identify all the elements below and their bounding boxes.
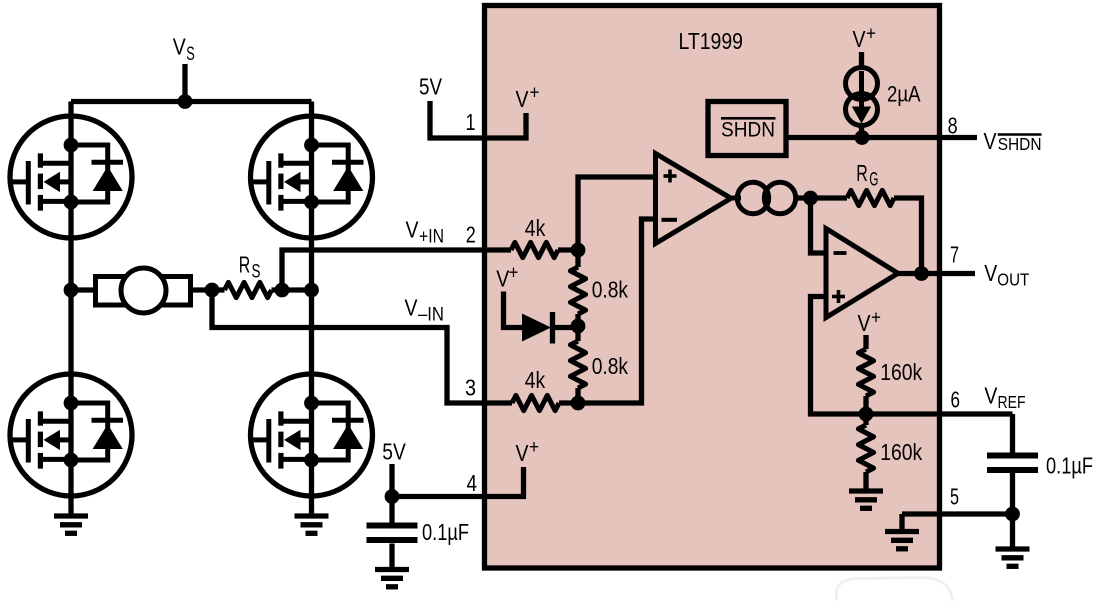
svg-text:R: R — [239, 252, 251, 278]
label V+ pin1 — [516, 82, 540, 112]
wire left column — [68, 102, 73, 517]
svg-text:0.1µF: 0.1µF — [422, 519, 469, 545]
wire VS stub — [182, 64, 187, 102]
wire + input of A1 — [578, 177, 656, 250]
label RG — [856, 160, 878, 191]
resistor 160k lower — [858, 414, 873, 491]
label VOUT — [984, 260, 1029, 290]
resistor 160k upper — [858, 335, 873, 414]
ground inside pin5 — [885, 532, 919, 549]
resistor 0.8k upper — [570, 250, 585, 326]
transistor M2 top-right — [251, 114, 373, 240]
junction pin2 node — [571, 243, 586, 258]
wire mirror to RG — [796, 195, 847, 200]
svg-text:4k: 4k — [525, 215, 546, 241]
minus sign A1 — [662, 218, 678, 222]
wire - input of A1 — [578, 219, 656, 403]
wire capacitor to pin5 node — [1010, 473, 1015, 515]
wire inside ground stub — [899, 514, 904, 532]
svg-text:+: + — [871, 307, 881, 328]
SHDN block — [708, 102, 786, 156]
svg-text:LT1999: LT1999 — [679, 28, 744, 54]
svg-text:1: 1 — [466, 109, 476, 135]
wire SHDN to pin 8 — [786, 135, 977, 140]
wire right column — [309, 102, 314, 517]
junction V+IN tap — [275, 283, 290, 298]
IC body LT1999 shaded box — [485, 6, 940, 569]
junction RS right column — [304, 283, 319, 298]
node VS label — [173, 34, 195, 66]
wire A2 output pin 7 — [898, 271, 975, 276]
diode D1 — [522, 312, 578, 344]
svg-text:V: V — [984, 383, 997, 409]
plus sign A1 — [664, 170, 677, 183]
svg-text:G: G — [869, 170, 878, 191]
svg-text:160k: 160k — [880, 439, 922, 465]
label V+IN — [406, 216, 445, 247]
transistor M4 bottom-right — [251, 372, 373, 498]
wire RG to output — [894, 198, 922, 274]
label V+ diode — [496, 262, 518, 291]
wire 5V to pin 1 — [430, 101, 526, 138]
svg-text:3: 3 — [465, 374, 476, 400]
svg-text:SHDN: SHDN — [998, 134, 1042, 154]
junction motor left — [64, 283, 79, 298]
label V+ 160k — [858, 307, 882, 336]
wire top rail — [71, 99, 312, 104]
svg-text:7: 7 — [950, 242, 959, 268]
svg-text:V: V — [984, 128, 997, 154]
junction VS — [178, 94, 193, 109]
svg-text:V: V — [853, 26, 866, 52]
label VREF — [984, 383, 1025, 413]
svg-text:0.1µF: 0.1µF — [1046, 453, 1093, 479]
svg-text:–IN: –IN — [418, 305, 444, 326]
current source 2uA — [846, 52, 878, 138]
svg-text:2: 2 — [466, 222, 476, 248]
svg-text:8: 8 — [948, 112, 958, 138]
svg-text:6: 6 — [951, 387, 961, 413]
transistor M3 bottom-left — [10, 372, 132, 498]
junction pin3 node — [571, 396, 586, 411]
svg-text:V: V — [516, 440, 529, 466]
svg-text:5V: 5V — [382, 439, 406, 465]
op-amp A1 input stage triangle — [656, 154, 732, 244]
watermark faint arcs — [836, 578, 952, 601]
svg-text:0.8k: 0.8k — [592, 353, 629, 379]
svg-text:S: S — [186, 44, 195, 65]
svg-text:+IN: +IN — [419, 226, 444, 247]
svg-text:5V: 5V — [419, 74, 442, 100]
label V-IN — [405, 295, 445, 326]
wire pin 5 — [902, 511, 1013, 516]
svg-text:V: V — [858, 310, 871, 336]
junction shdn node — [855, 130, 870, 145]
label V+ pin4 — [516, 437, 540, 466]
svg-text:4: 4 — [467, 470, 478, 496]
motor symbol — [71, 268, 212, 313]
junction mid node — [571, 319, 586, 334]
junction pin4 node — [385, 489, 400, 504]
svg-text:V: V — [984, 260, 997, 286]
wire - input of A2 — [811, 198, 827, 253]
ground under M4 — [295, 516, 329, 533]
plus sign A2 — [832, 290, 845, 303]
resistor 4k top — [511, 242, 558, 257]
label VSHDN — [984, 128, 1042, 154]
wire V-IN to pin 3 — [212, 290, 512, 403]
wire outside ground stub — [1010, 514, 1015, 549]
resistor 0.8k lower — [570, 326, 585, 403]
wire pin4 node to capacitor — [389, 497, 394, 524]
label RS — [239, 252, 261, 283]
wire V+ to diode — [504, 292, 523, 328]
svg-text:V: V — [173, 34, 186, 60]
ground C1 — [375, 570, 409, 587]
wire 5V pin 4 — [392, 464, 524, 497]
wire A1 output to mirror — [730, 196, 741, 201]
wire capacitor C1 to ground — [389, 544, 394, 570]
svg-text:OUT: OUT — [997, 270, 1029, 290]
svg-text:160k: 160k — [880, 359, 922, 385]
resistor RG — [847, 190, 894, 205]
junction output node — [914, 266, 929, 281]
resistor 4k bottom — [512, 395, 559, 410]
svg-text:0.8k: 0.8k — [592, 277, 629, 303]
svg-text:5: 5 — [950, 484, 959, 510]
svg-text:2µA: 2µA — [887, 82, 921, 107]
wire VREF to capacitor — [1010, 414, 1015, 453]
svg-text:+: + — [509, 262, 519, 283]
junction VREF node — [859, 407, 874, 422]
svg-text:V: V — [406, 216, 419, 242]
junction mirror output — [803, 191, 818, 206]
svg-text:V: V — [516, 86, 529, 112]
svg-text:V: V — [405, 295, 418, 321]
svg-text:S: S — [252, 262, 261, 283]
ground outside pin5 — [996, 549, 1030, 566]
current mirror circles — [737, 182, 768, 213]
op-amp A2 output buffer triangle — [826, 229, 898, 318]
svg-text:+: + — [866, 24, 876, 45]
wire + input of A2 and VREF rail — [811, 297, 1013, 415]
junction pin5 node — [1005, 507, 1020, 522]
capacitor C1 0.1uF — [367, 526, 418, 541]
svg-text:R: R — [856, 160, 868, 186]
svg-text:4k: 4k — [525, 367, 546, 393]
wire V+IN to pin 2 — [282, 250, 511, 290]
svg-text:REF: REF — [998, 392, 1026, 412]
label V+ current source — [853, 24, 877, 53]
capacitor C2 0.1uF — [987, 456, 1038, 471]
svg-text:SHDN: SHDN — [721, 119, 775, 142]
resistor RS — [212, 282, 312, 297]
transistor M1 top-left — [10, 114, 132, 240]
ground 160k — [849, 491, 883, 508]
junction motor right / V-IN tap — [205, 283, 220, 298]
ground under M3 — [54, 516, 88, 533]
svg-text:+: + — [529, 437, 539, 458]
minus sign A2 — [834, 251, 847, 255]
svg-text:+: + — [530, 82, 540, 103]
